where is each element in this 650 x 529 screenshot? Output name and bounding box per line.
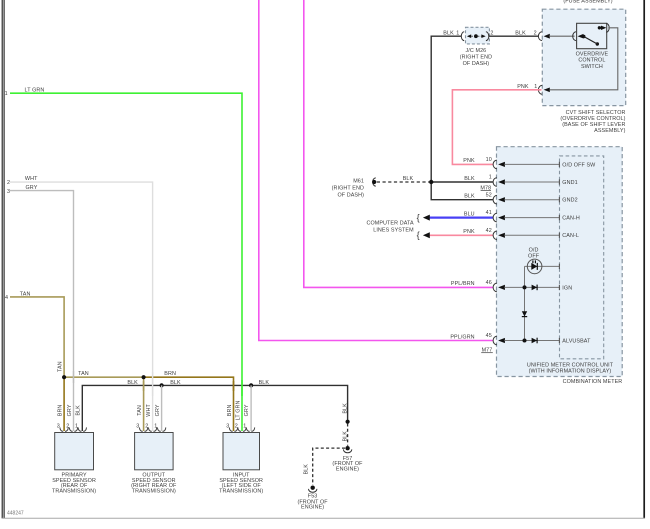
pin 52 GND2 bbox=[464, 192, 577, 204]
pin 45 ALVUSBAT bbox=[450, 333, 591, 353]
svg-text:TAN: TAN bbox=[137, 405, 143, 416]
unified meter control unit box bbox=[527, 156, 614, 375]
O/D OFF indicator LED U1 bbox=[527, 247, 542, 273]
svg-text:2: 2 bbox=[235, 424, 238, 430]
svg-text:{: { bbox=[417, 213, 420, 223]
wire BRN segments bbox=[64, 371, 233, 431]
svg-text:OFF: OFF bbox=[528, 253, 540, 259]
svg-text:2: 2 bbox=[534, 30, 537, 36]
svg-text:OF DASH): OF DASH) bbox=[337, 193, 364, 199]
svg-text:45: 45 bbox=[486, 333, 492, 339]
svg-text:3: 3 bbox=[136, 424, 139, 430]
svg-text:ALVUSBAT: ALVUSBAT bbox=[562, 338, 591, 344]
combination meter box bbox=[497, 147, 623, 385]
CVT shift selector box bbox=[542, 9, 625, 134]
svg-text:BLK: BLK bbox=[464, 194, 475, 200]
svg-text:GRY: GRY bbox=[244, 404, 250, 416]
svg-text:BLK: BLK bbox=[342, 403, 348, 414]
svg-text:TRANSMISSION): TRANSMISSION) bbox=[52, 489, 96, 495]
svg-text:1: 1 bbox=[534, 84, 537, 90]
svg-text:448247: 448247 bbox=[7, 510, 24, 516]
svg-text:BRN: BRN bbox=[164, 371, 176, 377]
svg-text:GRY: GRY bbox=[155, 404, 161, 416]
svg-text:GRY: GRY bbox=[26, 185, 38, 191]
wire PPL/GRN from top to combination meter pin 45 bbox=[259, 0, 494, 341]
svg-text:GND1: GND1 bbox=[562, 180, 577, 186]
svg-text:BLK: BLK bbox=[76, 405, 82, 416]
svg-text:O/D OFF SW: O/D OFF SW bbox=[562, 162, 596, 168]
svg-text:OF DASH): OF DASH) bbox=[463, 61, 490, 67]
svg-text:BLK: BLK bbox=[170, 380, 181, 386]
primary speed sensor box bbox=[52, 433, 96, 495]
svg-text:1: 1 bbox=[5, 91, 8, 97]
node TAN/BRN junction 2 bbox=[142, 375, 146, 379]
ground splice M61 bbox=[332, 178, 377, 199]
wire PNK from CVT pin 1 to meter pin 10 bbox=[452, 90, 541, 165]
switch input connector bbox=[573, 32, 584, 41]
svg-text:2: 2 bbox=[66, 424, 69, 430]
svg-text:BLK: BLK bbox=[464, 176, 475, 182]
svg-text:(FUSE ASSEMBLY): (FUSE ASSEMBLY) bbox=[563, 0, 612, 4]
svg-text:M61: M61 bbox=[353, 178, 364, 184]
svg-text:BLK: BLK bbox=[443, 30, 454, 36]
node BLK/GRY junction at input sensor bbox=[249, 383, 253, 387]
svg-text:BRN: BRN bbox=[227, 405, 233, 417]
svg-text:ENGINE): ENGINE) bbox=[301, 505, 324, 511]
wire PPL/BRN from top to combination meter pin 46 bbox=[304, 0, 494, 287]
wire switch output loop bbox=[550, 28, 618, 90]
wire BLU CAN-H bbox=[430, 217, 494, 219]
svg-text:CONTROL: CONTROL bbox=[578, 58, 605, 64]
svg-text:PPL/BRN: PPL/BRN bbox=[451, 281, 475, 287]
overdrive control switch bbox=[576, 23, 610, 70]
svg-text:ENGINE): ENGINE) bbox=[336, 467, 359, 473]
wire BLK dashed to F57 bbox=[342, 424, 348, 446]
ground splice F53 bbox=[298, 486, 329, 511]
svg-text:3: 3 bbox=[226, 424, 229, 430]
wire TAN (pin 4 down and across) bbox=[5, 291, 144, 431]
primary sensor pins bbox=[57, 361, 87, 431]
svg-text:PNK: PNK bbox=[463, 158, 475, 164]
wire GRY drop to input sensor pin 1 bbox=[250, 385, 252, 431]
input sensor pins bbox=[226, 400, 255, 431]
svg-text:BLK: BLK bbox=[259, 380, 270, 386]
svg-text:TRANSMISSION): TRANSMISSION) bbox=[219, 489, 263, 495]
svg-text:CAN-L: CAN-L bbox=[562, 233, 579, 239]
svg-text:(RIGHT END: (RIGHT END bbox=[332, 186, 364, 192]
svg-text:46: 46 bbox=[486, 280, 492, 286]
svg-text:10: 10 bbox=[486, 157, 492, 163]
svg-text:BLU: BLU bbox=[464, 211, 475, 217]
diode D1 on IGN row bbox=[532, 285, 538, 291]
svg-text:41: 41 bbox=[486, 210, 492, 216]
svg-text:J/C M26: J/C M26 bbox=[466, 48, 487, 54]
output sensor pins bbox=[136, 404, 166, 432]
svg-text:TAN: TAN bbox=[78, 371, 89, 377]
diode D3 on ALVUSBAT row bbox=[532, 338, 538, 344]
wire PNK CAN-L bbox=[430, 234, 494, 236]
svg-text:COMPUTER DATA: COMPUTER DATA bbox=[366, 221, 414, 227]
ground splice F57 bbox=[332, 446, 363, 473]
wire LED branch vertical bbox=[524, 266, 526, 340]
pin 42 CAN-L bbox=[463, 228, 579, 240]
svg-text:ASSEMBLY): ASSEMBLY) bbox=[594, 128, 625, 134]
pin 10 O/D OFF SW bbox=[463, 157, 596, 169]
svg-text:TAN: TAN bbox=[57, 361, 63, 372]
wire crossing overlays bbox=[241, 380, 243, 396]
svg-text:52: 52 bbox=[486, 192, 492, 198]
svg-text:BLK: BLK bbox=[304, 464, 310, 475]
svg-text:GND2: GND2 bbox=[562, 198, 577, 204]
svg-text:TAN: TAN bbox=[20, 291, 31, 297]
svg-text:PPL/GRN: PPL/GRN bbox=[450, 334, 474, 340]
wire BLK dashed to F53 bbox=[304, 448, 345, 485]
svg-text:LT GRN: LT GRN bbox=[25, 87, 45, 93]
pin 1 connector on CVT box bbox=[517, 84, 550, 94]
node TAN/BRN junction 1 bbox=[62, 375, 66, 379]
wire BLK dashed M61 to junction bbox=[377, 176, 430, 182]
computer data lines arrows and braces bbox=[366, 213, 429, 241]
svg-text:BLK: BLK bbox=[342, 431, 348, 442]
node BLK junction above F57 bbox=[346, 420, 350, 424]
node BLK junction at GND1 bbox=[429, 180, 433, 184]
svg-text:IGN: IGN bbox=[562, 285, 572, 291]
svg-text:PNK: PNK bbox=[463, 229, 475, 235]
pin 2 connector on CVT box bbox=[538, 32, 574, 41]
svg-text:BLK: BLK bbox=[127, 380, 138, 386]
input speed sensor box bbox=[219, 433, 263, 495]
wire LED row bbox=[525, 264, 560, 269]
svg-text:WHT: WHT bbox=[25, 176, 38, 182]
node BLK/GRY junction at output sensor bbox=[160, 383, 164, 387]
svg-text:1: 1 bbox=[75, 424, 78, 430]
svg-text:1: 1 bbox=[456, 30, 459, 36]
svg-text:{: { bbox=[417, 230, 420, 240]
wire GRY drop to output sensor pin 1 bbox=[161, 385, 163, 431]
wire BLK from J/C M26 to CVT shift selector bbox=[489, 30, 539, 36]
pin 1 GND1 bbox=[464, 175, 577, 192]
svg-text:3: 3 bbox=[7, 189, 10, 195]
wire WHT (pin 2 to output speed sensor pin 2) bbox=[7, 176, 153, 431]
svg-text:1: 1 bbox=[243, 424, 246, 430]
svg-text:2: 2 bbox=[145, 424, 148, 430]
svg-text:SWITCH: SWITCH bbox=[581, 64, 603, 70]
svg-text:BLK: BLK bbox=[403, 176, 414, 182]
svg-text:(RIGHT END: (RIGHT END bbox=[460, 55, 492, 61]
svg-text:42: 42 bbox=[486, 228, 492, 234]
svg-text:1: 1 bbox=[489, 175, 492, 181]
svg-text:GRY: GRY bbox=[67, 404, 73, 416]
svg-text:LT GRN: LT GRN bbox=[235, 400, 241, 420]
svg-text:WHT: WHT bbox=[146, 404, 152, 417]
pin 46 IGN bbox=[451, 280, 572, 292]
node ALVUSBAT junction bbox=[523, 339, 527, 343]
wire LT GRN (pin 1 to input speed sensor pin 2) bbox=[5, 87, 242, 431]
svg-text:1: 1 bbox=[154, 424, 157, 430]
output speed sensor box bbox=[131, 433, 177, 495]
diode D2 down bbox=[522, 311, 527, 316]
pin 41 CAN-H bbox=[464, 210, 580, 222]
svg-text:4: 4 bbox=[5, 295, 8, 301]
svg-text:COMBINATION METER: COMBINATION METER bbox=[563, 379, 623, 385]
svg-text:2: 2 bbox=[7, 180, 10, 186]
svg-text:TRANSMISSION): TRANSMISSION) bbox=[132, 489, 176, 495]
svg-text:BLK: BLK bbox=[515, 30, 526, 36]
svg-text:CAN-H: CAN-H bbox=[562, 216, 580, 222]
svg-text:PNK: PNK bbox=[517, 84, 529, 90]
svg-text:BRN: BRN bbox=[57, 405, 63, 417]
node IGN junction bbox=[523, 285, 527, 289]
junction connector J/C M26 bbox=[460, 27, 494, 67]
wire BLK ground bus bbox=[82, 380, 348, 431]
svg-text:(WITH INFORMATION DISPLAY): (WITH INFORMATION DISPLAY) bbox=[529, 368, 612, 374]
svg-text:LINES SYSTEM: LINES SYSTEM bbox=[373, 228, 414, 234]
wire BLK from J/C M26 down to GND1/GND2 bbox=[431, 30, 493, 199]
wire GRY (pin 3 to primary speed sensor pin 2) bbox=[7, 185, 74, 431]
svg-text:3: 3 bbox=[57, 424, 60, 430]
svg-text:OVERDRIVE: OVERDRIVE bbox=[576, 51, 609, 57]
